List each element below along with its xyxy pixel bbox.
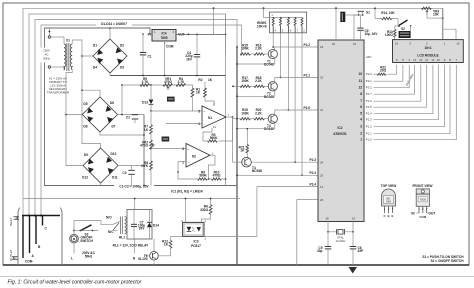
svg-text:22: 22 <box>320 76 324 80</box>
switch S3 on/off <box>74 225 98 243</box>
wire: bridge2 output row <box>118 84 145 115</box>
svg-text:AD7: AD7 <box>366 55 372 59</box>
svg-text:14: 14 <box>320 185 324 189</box>
wire: T3 collector row P2.0 <box>236 106 318 130</box>
svg-text:25: 25 <box>320 174 324 178</box>
transistor T1 BC548 <box>264 49 277 66</box>
wire: 5V corner to LCD <box>443 8 456 39</box>
svg-text:D9: D9 <box>84 153 88 157</box>
svg-text:11: 11 <box>359 79 363 83</box>
svg-text:COM: COM <box>25 260 33 264</box>
svg-text:B: B <box>387 214 389 218</box>
transformer X1 <box>51 37 73 71</box>
svg-text:SL100: SL100 <box>138 257 148 261</box>
relay coil RL1 <box>119 217 126 240</box>
svg-text:COM: COM <box>166 44 174 48</box>
backlight switch S2 <box>398 19 411 32</box>
svg-text:COM: COM <box>419 215 426 219</box>
svg-text:1K: 1K <box>144 128 149 132</box>
svg-text:21: 21 <box>320 108 324 112</box>
motor M1 <box>70 234 79 243</box>
wire: P1.2 row <box>374 65 445 127</box>
wire: sensor bundle W3 (COM bus, thick) <box>35 20 238 266</box>
label D1-D14 = 1N4007 <box>96 21 132 26</box>
svg-text:6: 6 <box>198 122 200 126</box>
capacitor C5 33p <box>317 246 331 265</box>
svg-text:P3.4: P3.4 <box>309 182 316 186</box>
svg-text:D4: D4 <box>93 66 97 70</box>
svg-text:548: 548 <box>386 199 391 203</box>
capacitor C4 220u 16V <box>185 34 200 75</box>
wire: P1.1 row <box>374 65 451 134</box>
svg-text:D7: D7 <box>112 125 116 129</box>
svg-text:IC1 (N1, N2) = LM324: IC1 (N1, N2) = LM324 <box>171 190 203 194</box>
svg-text:D2: D2 <box>120 44 124 48</box>
svg-text:12 MHz: 12 MHz <box>336 239 347 243</box>
svg-text:X1: X1 <box>66 39 70 43</box>
resistor R4 2.7K <box>176 77 186 86</box>
svg-text:P3.2: P3.2 <box>366 86 372 90</box>
svg-text:S1: S1 <box>366 11 370 15</box>
svg-text:C1: C1 <box>148 55 152 59</box>
svg-text:7805: 7805 <box>420 198 427 202</box>
wire: aux rail x=225.6 <box>225 14 227 186</box>
mains input terminals 230V AC 50Hz <box>41 28 53 68</box>
svg-text:D13: D13 <box>142 100 148 104</box>
sense divider chain: diode D13 <box>142 85 153 111</box>
water tank outline <box>18 208 62 265</box>
svg-text:33P: 33P <box>358 249 365 253</box>
LCD module 16x1 <box>393 40 464 63</box>
svg-text:2.2K: 2.2K <box>255 111 262 115</box>
resistor R1 1K <box>188 85 201 111</box>
svg-text:+: + <box>204 110 206 114</box>
relay snubber box <box>127 198 152 239</box>
svg-text:2.2K: 2.2K <box>255 79 262 83</box>
svg-text:3: 3 <box>360 125 362 129</box>
wire: IC2 GND pin 20 <box>297 200 318 265</box>
caption separator line <box>0 276 474 278</box>
svg-text:+: + <box>188 147 190 151</box>
op-amp N1 <box>198 102 229 133</box>
svg-text:L: L <box>71 257 73 261</box>
capacitor C1 <box>140 33 152 75</box>
crystal XTAL 12MHz <box>327 222 354 247</box>
svg-text:10: 10 <box>358 72 362 76</box>
svg-text:12: 12 <box>358 86 362 90</box>
resistor R9 560K <box>177 171 207 181</box>
svg-text:SWITCH: SWITCH <box>80 239 93 243</box>
svg-text:2.7K: 2.7K <box>142 80 149 84</box>
label C1-C3 electrolytics <box>114 183 154 189</box>
motor supply labels 230V AC 50Hz L N <box>71 239 136 261</box>
svg-text:RL1 = 12V, 1C/O RELAY: RL1 = 12V, 1C/O RELAY <box>113 244 150 248</box>
svg-text:23: 23 <box>320 45 324 49</box>
bridge rectifier D9-D12 <box>82 148 118 183</box>
svg-text:IC4: IC4 <box>162 32 167 36</box>
voltage regulator IC4 7805 <box>148 30 185 49</box>
svg-text:P1.5: P1.5 <box>366 105 372 109</box>
optocoupler IC3 PC817 <box>181 219 207 248</box>
svg-text:1K: 1K <box>208 78 213 82</box>
label RL1 = 12V 1C/O relay <box>113 244 150 248</box>
wire: P1.0 row <box>374 65 457 140</box>
svg-text:330Ω: 330Ω <box>200 208 208 212</box>
svg-text:20Ω: 20Ω <box>380 68 387 72</box>
wire: T4 row P2.3 <box>251 158 318 162</box>
push switch S1 <box>345 11 370 16</box>
resistor R21 1K <box>239 128 249 158</box>
svg-text:P2.4: P2.4 <box>309 171 316 175</box>
svg-text:D11: D11 <box>112 176 118 180</box>
svg-text:P2.0: P2.0 <box>303 106 310 110</box>
svg-text:P3.1: P3.1 <box>366 79 372 83</box>
svg-text:35V: 35V <box>139 227 146 231</box>
svg-text:LCD MODULE: LCD MODULE <box>417 53 438 57</box>
resistor R7 1K <box>144 111 152 140</box>
svg-text:7: 7 <box>360 99 362 103</box>
svg-text:6: 6 <box>360 105 362 109</box>
svg-text:IC2: IC2 <box>338 126 343 130</box>
bridge rectifier D5-D8 <box>82 97 117 132</box>
svg-text:7805: 7805 <box>160 36 167 40</box>
wire: T5 collector to relay box <box>153 239 155 265</box>
wire: P1.6 row <box>374 65 421 101</box>
resistor R8 2.7K <box>141 161 152 186</box>
svg-text:1K: 1K <box>196 91 201 95</box>
wire: P3.2 row <box>374 65 410 88</box>
package drawing 7805 front view <box>411 184 435 219</box>
svg-text:10K: 10K <box>433 13 440 17</box>
analog section box (left edge, top edge, bottom edge) <box>45 28 238 186</box>
wire: bridge2 bottom <box>100 132 144 135</box>
svg-text:P1.3: P1.3 <box>366 118 372 122</box>
svg-text:N2: N2 <box>192 154 196 158</box>
svg-text:P1.6: P1.6 <box>366 99 372 103</box>
wire: sensor bundle W2 <box>29 14 226 216</box>
tank COM electrode bar <box>22 215 60 217</box>
outlet pipe and label <box>9 249 18 261</box>
wire: secondary top to bridges <box>72 40 100 148</box>
svg-text:100K: 100K <box>241 46 249 50</box>
svg-text:16: 16 <box>456 41 460 45</box>
PSU ground rail <box>110 73 226 76</box>
wire: T1 collector row P2.2 <box>236 43 318 65</box>
wire: 7805 OUT 5V row <box>176 8 227 35</box>
bridge rectifier D1-D4 <box>93 39 127 73</box>
svg-text:470Ω: 470Ω <box>164 80 172 84</box>
svg-text:E: E <box>392 214 394 218</box>
svg-text:10µ, 16V: 10µ, 16V <box>365 32 379 36</box>
svg-text:P3.0: P3.0 <box>366 72 372 76</box>
svg-text:C2: C2 <box>126 116 130 120</box>
svg-text:2.2K: 2.2K <box>255 46 262 50</box>
svg-text:18: 18 <box>325 217 329 221</box>
wire: N2 minus input from R9 <box>178 162 186 173</box>
resistor R16 2.2K <box>250 43 268 55</box>
transistor T4 BC548 <box>242 157 262 173</box>
capacitor C3 <box>122 166 134 187</box>
wire: bridge3 output row <box>118 165 144 167</box>
reset switch block (RESET label) <box>340 12 345 40</box>
svg-text:100K: 100K <box>241 111 249 115</box>
svg-text:D12: D12 <box>82 176 88 180</box>
transistor T5 SL100 <box>138 252 158 262</box>
svg-text:10K×8: 10K×8 <box>257 25 267 29</box>
svg-text:13: 13 <box>419 58 423 62</box>
capacitor C6 33p <box>350 246 364 265</box>
svg-text:5: 5 <box>198 109 200 113</box>
backlight block (black) <box>399 26 411 38</box>
wire: RNW1 outputs down <box>272 33 303 176</box>
wire: P3.0 row with R22 <box>374 65 397 75</box>
resistor network RNW1 10Kx8 <box>257 8 307 33</box>
preset VR3 10K <box>422 7 444 19</box>
svg-text:R2: R2 <box>198 78 202 82</box>
svg-text:N1: N1 <box>208 116 212 120</box>
svg-text:BC548: BC548 <box>264 63 274 67</box>
wire: bridge1 plus to 7805 IN <box>109 27 152 39</box>
svg-text:24: 24 <box>320 160 324 164</box>
wire: motor top to N/O contact <box>73 221 112 235</box>
svg-text:10: 10 <box>437 58 441 62</box>
wire: row P2.4 <box>236 171 318 176</box>
resistor R6 330-ohm <box>200 198 212 223</box>
svg-text:S2 = ON/OFF SWITCH: S2 = ON/OFF SWITCH <box>430 259 464 263</box>
svg-text:P2.2: P2.2 <box>303 43 310 47</box>
svg-text:−: − <box>188 161 190 165</box>
wire: P1.4 row <box>374 65 433 114</box>
wire: bridge3 bottom to box bottom <box>101 115 145 186</box>
wire: secondary bottom to bridges <box>65 70 83 166</box>
svg-text:INLET: INLET <box>9 217 13 226</box>
probe COM <box>23 216 33 264</box>
svg-text:D14: D14 <box>153 223 159 227</box>
wire: IC2 pin40 VCC up to 5V rail <box>335 8 337 40</box>
node to N1 plus input <box>150 110 202 112</box>
wire: 12V rail to relay/opto section <box>23 198 240 200</box>
svg-text:AT89C51: AT89C51 <box>333 132 347 136</box>
microcontroller IC2 AT89C51 <box>318 32 372 222</box>
svg-text:5: 5 <box>360 112 362 116</box>
svg-text:560K: 560K <box>199 174 207 178</box>
svg-text:1K: 1K <box>240 149 245 153</box>
svg-text:100K: 100K <box>241 79 249 83</box>
wire: 7805 COM to ground rail <box>164 41 166 76</box>
svg-text:PC817: PC817 <box>191 244 201 248</box>
svg-text:50Hz: 50Hz <box>43 57 50 61</box>
svg-text:40: 40 <box>332 42 336 46</box>
resistor R17 100K <box>232 76 250 88</box>
wire: row P3.4 from opto <box>257 182 318 186</box>
ground bus (thick bottom rail) <box>3 264 469 266</box>
svg-text:D3: D3 <box>120 66 124 70</box>
label IC1 = LM324 <box>171 190 203 194</box>
svg-text:3: 3 <box>182 147 184 151</box>
svg-text:BC548: BC548 <box>264 95 274 99</box>
divider rail y=85 <box>122 84 188 186</box>
capacitor C7 <box>131 210 145 240</box>
net label box U3 <box>162 137 170 142</box>
svg-text:14: 14 <box>413 58 417 62</box>
svg-text:−: − <box>204 122 206 126</box>
svg-text:TOP VIEW: TOP VIEW <box>381 184 396 188</box>
ground symbol arrow below bus <box>349 267 358 274</box>
svg-text:2: 2 <box>182 160 184 164</box>
svg-text:11: 11 <box>431 58 434 62</box>
wire: PC817 pin2 to P3.4 riser <box>204 187 257 237</box>
svg-text:N/O: N/O <box>106 216 112 220</box>
transistor T2 BC548 <box>264 82 277 99</box>
svg-text:2.7K: 2.7K <box>141 164 148 168</box>
svg-text:2: 2 <box>360 132 362 136</box>
resistor R12 1K <box>145 236 172 255</box>
wire: N1 minus input <box>166 111 202 124</box>
svg-text:D1: D1 <box>93 44 97 48</box>
svg-text:P2.1: P2.1 <box>303 73 310 77</box>
package drawing BC548 top view <box>381 184 396 218</box>
svg-text:D8: D8 <box>83 125 87 129</box>
svg-text:P1.1: P1.1 <box>366 132 372 136</box>
data bus rows IC2 to LCD <box>366 72 372 142</box>
resistor R15 100K <box>240 43 250 55</box>
probe B <box>36 216 41 250</box>
svg-text:8: 8 <box>360 92 362 96</box>
svg-text:1: 1 <box>360 138 362 142</box>
svg-text:20: 20 <box>320 198 324 202</box>
wire: LCD pin15 to 5V riser <box>396 36 398 40</box>
resistor R3 560K feedback <box>203 117 233 142</box>
svg-text:C3: C3 <box>122 171 126 175</box>
wire: P1.7 row <box>374 65 415 94</box>
svg-text:50Hz: 50Hz <box>85 255 93 259</box>
wire: N2 output <box>208 155 215 180</box>
svg-text:16V: 16V <box>186 57 193 61</box>
svg-text:P1.0: P1.0 <box>366 138 372 142</box>
svg-text:15: 15 <box>395 41 399 45</box>
svg-text:D10: D10 <box>111 152 117 156</box>
svg-text:1K: 1K <box>164 243 169 247</box>
resistor R14 10K <box>374 7 398 19</box>
switch legend notes <box>422 255 464 263</box>
resistor R20 2.2K <box>250 108 268 120</box>
resistor R13 100-ohm <box>385 26 398 40</box>
op-amp N2 <box>182 144 213 168</box>
svg-text:D1-D14 = 1N4007: D1-D14 = 1N4007 <box>101 22 127 26</box>
svg-text:R14, 10K: R14, 10K <box>381 11 395 15</box>
svg-text:33p: 33p <box>317 249 323 253</box>
svg-text:11: 11 <box>213 125 216 129</box>
svg-text:4: 4 <box>360 118 362 122</box>
wire: PC817 pin3 to R12 <box>171 235 183 237</box>
resistor R2 1K <box>198 78 214 106</box>
svg-text:2.7K: 2.7K <box>178 80 185 84</box>
wire: P1.3 row <box>374 65 439 120</box>
wire: P3.1 row <box>374 65 403 81</box>
wire: P1.5 row <box>374 65 427 107</box>
svg-text:100Ω: 100Ω <box>385 33 393 37</box>
svg-text:RL1: RL1 <box>119 236 125 240</box>
inlet pipe and label <box>9 217 19 227</box>
diode D14 <box>147 210 159 240</box>
resistor R10 470-ohm <box>209 171 227 181</box>
preset VR2 470-ohm <box>140 140 186 161</box>
svg-text:470Ω: 470Ω <box>140 144 148 148</box>
svg-text:Fig. 1: Circuit of water-level: Fig. 1: Circuit of water-level controlle… <box>8 279 142 285</box>
svg-text:16×1: 16×1 <box>424 46 431 50</box>
probe C <box>43 216 48 231</box>
wire: PC817 pin4 up to 12V rail <box>185 198 187 223</box>
wire: N1 output <box>226 116 243 162</box>
svg-text:BC548: BC548 <box>264 127 274 131</box>
svg-text:OUT: OUT <box>429 212 436 216</box>
transistor T3 BC548 <box>264 114 277 131</box>
svg-text:P1.4: P1.4 <box>366 112 372 116</box>
resistor R18 2.2K <box>250 76 268 88</box>
svg-text:D5: D5 <box>83 102 87 106</box>
node: 5V rail junction dots <box>213 7 338 9</box>
relay contacts N/O N/C and pole <box>106 216 120 234</box>
svg-text:D6: D6 <box>110 101 114 105</box>
wire: T2 collector row P2.1 <box>236 73 318 97</box>
wire: IC2 pin31 up <box>354 15 364 40</box>
resistor R19 100K <box>233 108 250 120</box>
svg-text:12: 12 <box>425 58 429 62</box>
svg-text:P1.2: P1.2 <box>366 125 372 129</box>
capacitor C9 10u 16V <box>357 16 378 41</box>
svg-text:C1-C3 = 1000µ, 35V: C1-C3 = 1000µ, 35V <box>119 184 149 188</box>
label R21 33-ohm rotated <box>404 73 414 87</box>
svg-text:31: 31 <box>353 42 357 46</box>
capacitor C2 <box>126 115 138 123</box>
preset VR1 470-ohm <box>163 77 173 90</box>
svg-text:P1.7: P1.7 <box>366 92 372 96</box>
net label box U2 <box>167 97 175 102</box>
probe A <box>30 216 35 259</box>
label X1 transformer spec <box>47 77 69 95</box>
wire: sensor bundle W4 <box>41 25 242 216</box>
resistor R5 2.7K <box>140 77 150 86</box>
svg-text:FRONT VIEW: FRONT VIEW <box>412 184 432 188</box>
svg-text:P2.3: P2.3 <box>309 158 316 162</box>
svg-text:S2: S2 <box>401 27 405 31</box>
svg-text:BC548: BC548 <box>252 169 262 173</box>
wire: sensor bundle W1 (top rail +5V, corner at left) <box>23 8 443 215</box>
svg-text:560K: 560K <box>210 136 218 140</box>
svg-text:19: 19 <box>352 217 356 221</box>
